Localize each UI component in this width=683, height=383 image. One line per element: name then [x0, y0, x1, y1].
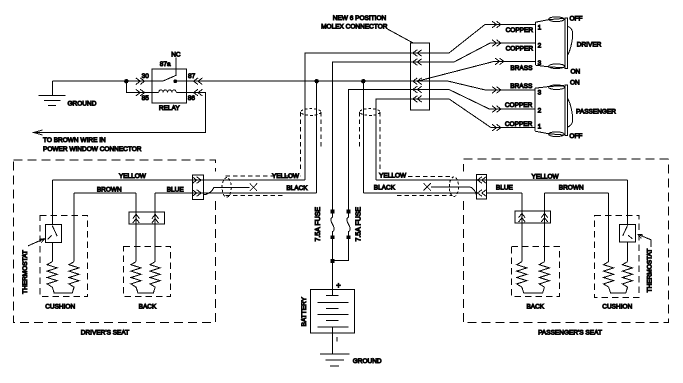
fuse F2 7.5A	[347, 207, 362, 242]
svg-text:MOLEX CONNECTOR: MOLEX CONNECTOR	[321, 23, 388, 30]
wire relay 87 to molex	[187, 80, 449, 82]
cut wire stub with splice X (driver)	[204, 187, 250, 195]
svg-text:BLACK: BLACK	[374, 185, 396, 192]
svg-text:THERMOSTAT: THERMOSTAT	[647, 249, 654, 293]
wire passenger black riser	[362, 81, 364, 193]
svg-text:85: 85	[142, 95, 150, 102]
molex connector	[410, 43, 429, 110]
connector (driver seat harness)	[192, 175, 203, 199]
svg-text:2: 2	[538, 42, 542, 49]
svg-text:GROUND: GROUND	[68, 101, 97, 108]
svg-text:1: 1	[538, 124, 542, 131]
svg-text:BROWN: BROWN	[559, 185, 584, 192]
wire molex to driver switch pin 3	[417, 61, 535, 81]
wire back left feed (passenger)	[521, 193, 523, 262]
svg-text:CUSHION: CUSHION	[45, 304, 75, 311]
wire thermostat feed (passenger)	[627, 180, 629, 262]
wire driver black riser	[316, 81, 318, 193]
svg-text:PASSENGER: PASSENGER	[576, 109, 616, 116]
svg-text:TO BROWN WIRE IN: TO BROWN WIRE IN	[43, 137, 106, 144]
svg-text:BATTERY: BATTERY	[301, 296, 308, 326]
leader to molex	[387, 29, 414, 44]
arrowhead to brown wire	[34, 130, 43, 135]
svg-text:OFF: OFF	[569, 133, 582, 140]
heating element back left	[131, 262, 141, 288]
svg-text:7.5A FUSE: 7.5A FUSE	[355, 207, 362, 242]
node passenger black tap	[362, 80, 365, 83]
svg-text:NC: NC	[171, 51, 181, 58]
pin 30 connector arrows	[136, 78, 145, 85]
battery	[301, 281, 355, 354]
cushion heater unit (driver)	[40, 216, 88, 297]
svg-text:COPPER: COPPER	[505, 121, 533, 128]
wire black (passenger)	[363, 192, 476, 194]
svg-text:COPPER: COPPER	[505, 102, 533, 109]
svg-text:7.5A FUSE: 7.5A FUSE	[315, 207, 322, 242]
wire yellow (passenger seat)	[376, 179, 627, 181]
svg-text:30: 30	[142, 73, 150, 80]
svg-text:87a: 87a	[160, 61, 171, 68]
label: new 6 position molex connector	[321, 15, 388, 31]
passenger seat enclosure	[463, 159, 668, 323]
ground (left)	[39, 81, 97, 107]
svg-text:BLUE: BLUE	[496, 185, 514, 192]
switch passenger	[535, 85, 573, 137]
element bottom link	[136, 287, 155, 293]
svg-text:POWER WINDOW CONNECTOR: POWER WINDOW CONNECTOR	[43, 146, 142, 153]
wire molex to passenger switch pin 2	[410, 90, 535, 110]
switch driver	[535, 17, 572, 69]
wire brown (driver seat)	[74, 192, 136, 194]
svg-text:+: +	[336, 281, 341, 290]
svg-text:COPPER: COPPER	[506, 46, 534, 53]
wire molex pos6 to passenger yellow riser	[376, 99, 410, 180]
node driver black tap	[315, 80, 318, 83]
wire molex pos2 to fuse 1	[333, 62, 411, 212]
wire thermostat feed	[51, 180, 53, 262]
wire molex pos1 to driver yellow riser	[305, 53, 411, 180]
node fuse join	[331, 260, 334, 263]
back heater unit (driver)	[124, 247, 171, 297]
svg-text:YELLOW: YELLOW	[119, 173, 147, 180]
svg-text:ON: ON	[570, 80, 580, 87]
wire molex to driver switch pin 2	[410, 43, 535, 62]
wire cushion left feed (passenger)	[608, 193, 610, 262]
svg-text:3: 3	[538, 60, 542, 67]
heating element back right	[150, 262, 160, 288]
wire blue + black (driver seat)	[155, 192, 317, 194]
wire molex to passenger switch pin 3	[448, 81, 535, 90]
cushion heater unit (passenger)	[595, 216, 640, 298]
heating element cushion right (passenger)	[622, 262, 632, 288]
driver seat enclosure	[13, 160, 215, 323]
svg-text:BLACK: BLACK	[286, 185, 308, 192]
heating element cushion left	[47, 262, 57, 288]
wire brown (passenger seat)	[545, 192, 609, 194]
svg-text:DRIVER: DRIVER	[577, 42, 602, 49]
svg-text:BRASS: BRASS	[510, 83, 533, 90]
wire molex to passenger switch pin 1	[410, 99, 535, 128]
X cut mark	[250, 184, 257, 191]
svg-text:ON: ON	[571, 69, 581, 76]
pin 86 connector arrows	[194, 89, 203, 96]
wire fuse 2 join	[333, 237, 349, 261]
svg-text:DRIVER'S SEAT: DRIVER'S SEAT	[81, 330, 129, 337]
connector (driver back)	[129, 212, 164, 224]
wire back right feed	[154, 193, 156, 262]
wire blue (passenger seat)	[486, 192, 522, 194]
svg-text:GROUND: GROUND	[353, 358, 382, 365]
heating element cushion right	[69, 262, 79, 288]
svg-text:BACK: BACK	[526, 304, 544, 311]
wire ground to relay pin 30	[52, 80, 162, 82]
wire molex to driver switch pin 1	[410, 25, 535, 54]
thermostat (driver)	[45, 225, 61, 243]
svg-text:OFF: OFF	[570, 15, 583, 22]
svg-text:PASSENGER'S SEAT: PASSENGER'S SEAT	[538, 329, 602, 336]
pin 85 connector arrows	[136, 89, 145, 96]
heating element back right (passenger)	[539, 262, 549, 288]
fuse F1 7.5A	[315, 207, 334, 242]
svg-text:BRASS: BRASS	[510, 65, 533, 72]
wire yellow (driver seat)	[52, 179, 304, 181]
svg-text:3: 3	[538, 89, 542, 96]
wire back left feed	[135, 193, 137, 262]
harness sheath (passenger, dashed)	[360, 109, 459, 197]
svg-text:THERMOSTAT: THERMOSTAT	[22, 250, 29, 294]
heating element back left (passenger)	[517, 262, 527, 288]
wire molex pos4 to fuse 2	[349, 90, 411, 212]
heating element cushion left (passenger)	[604, 262, 614, 288]
svg-text:YELLOW: YELLOW	[379, 173, 407, 180]
connector (passenger back)	[515, 211, 551, 223]
pin 87 connector arrows	[194, 78, 203, 85]
back heater unit (passenger)	[512, 247, 560, 297]
element bottom link	[52, 287, 74, 293]
svg-text:COPPER: COPPER	[506, 27, 534, 34]
svg-text:RELAY: RELAY	[159, 105, 180, 112]
wire junction down to relay pin 85	[126, 81, 158, 92]
harness sheath (driver, dashed)	[222, 109, 321, 198]
label: to brown wire note	[43, 137, 142, 153]
leader to thermostat (passenger)	[638, 234, 652, 247]
element bottom link	[522, 287, 545, 293]
wire fuse 1 to battery	[332, 237, 334, 295]
svg-text:86: 86	[188, 95, 196, 102]
thermostat (passenger)	[619, 224, 635, 242]
leader to thermostat	[28, 239, 45, 246]
cut wire stub with splice X (passenger)	[431, 187, 477, 195]
node junction at relay feed	[125, 80, 128, 83]
svg-text:YELLOW: YELLOW	[272, 173, 300, 180]
wire cushion right element feed	[73, 193, 75, 262]
svg-text:1: 1	[538, 25, 542, 32]
ground (battery)	[320, 354, 382, 366]
wire back right feed (passenger)	[544, 193, 546, 262]
X cut mark	[424, 183, 431, 190]
svg-text:87: 87	[188, 73, 196, 80]
svg-text:NEW 6 POSITION: NEW 6 POSITION	[333, 15, 387, 22]
svg-text:BLUE: BLUE	[167, 186, 185, 193]
relay	[142, 51, 196, 112]
svg-text:YELLOW: YELLOW	[532, 173, 560, 180]
svg-text:CUSHION: CUSHION	[602, 304, 632, 311]
element bottom link	[609, 287, 628, 293]
svg-text:2: 2	[538, 107, 542, 114]
svg-text:BACK: BACK	[139, 304, 157, 311]
connector (passenger seat harness)	[476, 175, 486, 200]
svg-text:BROWN: BROWN	[97, 186, 122, 193]
wire relay 86 to power window feed	[34, 93, 206, 133]
